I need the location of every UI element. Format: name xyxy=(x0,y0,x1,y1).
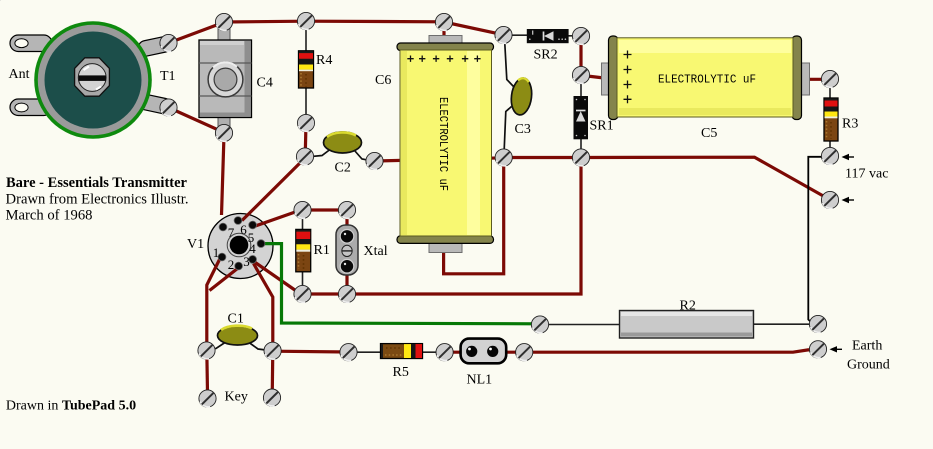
junction screw T1 lower right xyxy=(160,99,177,116)
junction screw NL1 right xyxy=(516,344,533,361)
tube V1 pins xyxy=(218,217,265,270)
junction screw R1 top xyxy=(294,201,311,218)
svg-text:T1: T1 xyxy=(160,69,176,84)
svg-text:Ant: Ant xyxy=(9,67,30,82)
junction screw C2 left xyxy=(296,148,313,165)
resistor R3 xyxy=(824,98,838,141)
svg-text:C3: C3 xyxy=(515,122,531,137)
svg-text:R4: R4 xyxy=(316,53,332,68)
wire top bus C4 to R4 to C6 xyxy=(224,20,444,24)
svg-text:SR2: SR2 xyxy=(534,48,558,63)
coil T1 upper left lug xyxy=(10,35,52,52)
junction screw SR2 left xyxy=(495,26,512,43)
svg-text:NL1: NL1 xyxy=(467,373,493,388)
arrow earth ground xyxy=(830,346,843,352)
coil T1 body xyxy=(34,21,152,139)
svg-text:3: 3 xyxy=(243,254,250,269)
wire SR1 bottom down and across to R1 bottom junction xyxy=(303,158,582,295)
wire SR1 bottom junction to 117vac lower junction xyxy=(581,157,830,199)
electrolytic capacitor C6 xyxy=(397,36,494,253)
resistor R1 xyxy=(296,229,311,271)
junction screw SR1 top xyxy=(572,66,589,83)
svg-text:V1: V1 xyxy=(187,237,204,252)
variable capacitor C4 bottom tab xyxy=(218,116,230,128)
junction screw Xtal bottom xyxy=(338,285,355,302)
junction screw C1 right xyxy=(264,342,281,359)
capacitor C2 xyxy=(324,132,362,153)
svg-text:ELECTROLYTIC uF: ELECTROLYTIC uF xyxy=(658,74,756,87)
coil T1 center screw octagon xyxy=(75,58,110,96)
junction screw C6 right node A xyxy=(495,149,512,166)
wire V1 pin2 down left xyxy=(210,269,238,291)
resistor R5 xyxy=(381,344,423,359)
svg-text:C5: C5 xyxy=(701,126,717,141)
black wire R3 leads xyxy=(829,88,831,148)
wire NL1 right junction to earth ground junction xyxy=(524,350,817,353)
wire C6 top stub xyxy=(442,22,445,37)
svg-text:March of 1968: March of 1968 xyxy=(6,208,93,224)
svg-text:Bare - Essentials Transmitter: Bare - Essentials Transmitter xyxy=(6,175,187,191)
black wire R1 leads xyxy=(302,218,304,286)
wire V1 pin5 to R1 top junction xyxy=(254,211,298,227)
junction screw C5 right xyxy=(821,70,838,87)
neon lamp NL1 xyxy=(461,339,507,364)
black wire C3 top leg xyxy=(505,44,514,87)
svg-text:R5: R5 xyxy=(393,365,409,380)
variable capacitor C4 top tab xyxy=(218,29,230,41)
green wire V1 pin4 to R2 left junction xyxy=(263,244,537,324)
junction screw C4 bottom xyxy=(215,124,232,141)
svg-text:R2: R2 xyxy=(680,299,696,314)
junction screw Key right xyxy=(263,389,280,406)
svg-text:C4: C4 xyxy=(257,76,273,91)
coil T1 lower right lug xyxy=(137,93,173,115)
wire C2 junction to V1 pin6 xyxy=(242,158,305,221)
wire T1 lower lug to C4 bottom xyxy=(169,108,225,133)
coil T1 lower left lug xyxy=(10,99,52,116)
diode SR2 xyxy=(0,0,569,43)
svg-text:R3: R3 xyxy=(842,117,858,132)
svg-text:ELECTROLYTIC uF: ELECTROLYTIC uF xyxy=(436,97,449,191)
wire C6 top to SR2 left xyxy=(444,22,504,35)
black wire C3 bottom leg xyxy=(504,107,511,150)
wire C5 right tab to junction xyxy=(808,78,825,81)
svg-text:4: 4 xyxy=(249,241,256,256)
junction screw R5 right xyxy=(436,344,453,361)
wire SR2 right to SR1 top xyxy=(579,36,582,70)
arrow 117vac lower xyxy=(842,197,855,203)
svg-text:1: 1 xyxy=(213,245,220,260)
svg-text:C6: C6 xyxy=(375,73,391,88)
junction screw Key left xyxy=(199,390,216,407)
svg-text:C1: C1 xyxy=(228,312,244,327)
junction screw C2 right xyxy=(366,152,383,169)
junction screw Earth Ground xyxy=(809,341,826,358)
wire C6 right junction to SR1 bottom junction xyxy=(504,156,581,159)
svg-text:2: 2 xyxy=(228,257,235,272)
resistor R4 xyxy=(299,51,314,88)
capacitor C3 xyxy=(509,77,533,116)
junction screw R2 left xyxy=(531,316,548,333)
wire C4 bottom to V1 pin7 xyxy=(222,135,225,215)
wire xtal top stub xyxy=(345,218,348,227)
svg-text:R1: R1 xyxy=(314,243,330,258)
junction screw C1 left xyxy=(198,342,215,359)
wire C1 right to R5 left junction xyxy=(273,350,349,354)
svg-text:6: 6 xyxy=(240,222,247,237)
wire NL1 stubs xyxy=(446,351,523,354)
svg-text:Earth: Earth xyxy=(852,339,882,354)
wire V1 pin3 to R1 bottom junction xyxy=(255,262,298,292)
capacitor C1 xyxy=(218,326,258,345)
junction screw R4 top xyxy=(297,12,314,29)
svg-text:7: 7 xyxy=(228,225,235,240)
tube socket V1 base xyxy=(208,214,273,279)
power resistor R2 xyxy=(620,311,754,339)
diode SR1 xyxy=(574,96,589,139)
junction screw R5 left xyxy=(340,344,357,361)
black wire R4 leads xyxy=(305,30,307,116)
electrolytic capacitor C5 xyxy=(602,36,810,120)
svg-text:Key: Key xyxy=(225,390,248,405)
junction screw R3 bottom 117vac xyxy=(821,147,838,164)
junction screw R1 bottom xyxy=(294,285,311,302)
tube V1 pin numbers xyxy=(213,222,257,272)
wire R1 top to Xtal top xyxy=(303,208,348,211)
variable capacitor C4 body xyxy=(199,40,252,118)
svg-text:SR1: SR1 xyxy=(590,119,614,134)
wire T1 upper lug to C4 top xyxy=(169,22,225,43)
junction screw SR1 bottom node B xyxy=(572,149,589,166)
black wire R5 leads xyxy=(350,351,443,353)
wire xtal bottom stub xyxy=(345,275,348,287)
junction screw Xtal top xyxy=(338,201,355,218)
wire C1 right to key right xyxy=(271,351,275,398)
coil T1 upper right lug xyxy=(137,35,173,57)
wire C1 left to key left xyxy=(205,351,209,399)
wire C6 right junction down to C6 bottom tab xyxy=(444,158,504,274)
black wire SR2 leads xyxy=(512,34,573,37)
crystal Xtal xyxy=(336,225,358,275)
wire SR1 top to C5 left tab xyxy=(583,76,604,79)
svg-text:Drawn in TubePad 5.0: Drawn in TubePad 5.0 xyxy=(6,399,136,414)
wire V1 pin3 to C1 right xyxy=(254,264,273,352)
svg-text:Ground: Ground xyxy=(847,358,890,373)
wire R4 bottom to C2 left junction xyxy=(304,123,308,157)
junction screw T1 upper right xyxy=(160,34,177,51)
svg-text:Drawn from Electronics Illustr: Drawn from Electronics Illustr. xyxy=(6,192,189,208)
junction screw R2 right xyxy=(809,315,826,332)
black wire R2 leads xyxy=(541,323,817,325)
black wire SR1 leads xyxy=(580,84,582,150)
black wire C1 legs xyxy=(209,343,271,351)
junction screw C6 top xyxy=(435,13,452,30)
junction screw SR2 right xyxy=(572,27,589,44)
svg-text:Xtal: Xtal xyxy=(364,244,388,259)
arrow 117vac upper xyxy=(842,154,855,160)
black wire 117vac junction to R2 right junction xyxy=(808,157,822,324)
junction screw 117vac lower xyxy=(821,191,838,208)
junction screw R4 bottom xyxy=(297,114,314,131)
junction screw C4 top xyxy=(215,13,232,30)
wire V1 pin1 to C1 left xyxy=(207,259,220,351)
svg-text:C2: C2 xyxy=(335,161,351,176)
wire C2 right junction to C6 right junction (under C6) xyxy=(375,158,504,161)
svg-text:117 vac: 117 vac xyxy=(845,167,888,182)
black wire C2 legs xyxy=(308,150,372,161)
